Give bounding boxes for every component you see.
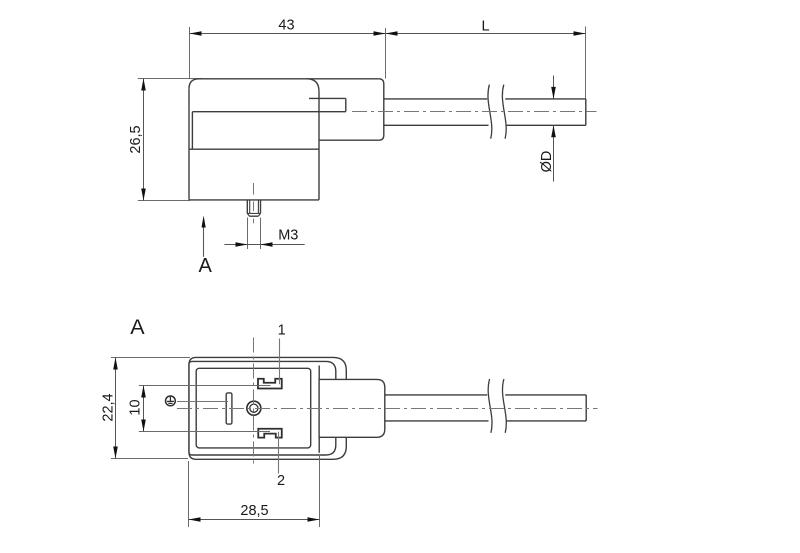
center fixing hole outer (247, 401, 261, 415)
cable break front curve 1 (488, 379, 492, 433)
svg-text:1: 1 (278, 323, 286, 339)
dimension 43/L shared extension line (385, 28, 387, 79)
cable gland right corner top (379, 79, 384, 84)
M3 screw chamfer right (258, 213, 260, 216)
svg-text:10: 10 (128, 399, 144, 415)
M3 extension line right (260, 218, 262, 250)
svg-text:A: A (199, 255, 213, 277)
dimension 10 extension top (139, 385, 271, 387)
band bottom line (189, 148, 319, 150)
arrow L left (386, 31, 398, 36)
dimension 22,4 extension bottom (111, 458, 188, 460)
dimension 10 extension bottom (139, 431, 270, 433)
cap top-left corner (189, 79, 199, 89)
M3 screw thread line right (257, 200, 259, 214)
earth screw leader line (177, 401, 228, 403)
svg-text:28,5: 28,5 (240, 503, 268, 519)
pin 2 leader line (278, 432, 280, 474)
dimension 26,5 extension bottom (138, 200, 190, 202)
svg-text:22,4: 22,4 (101, 393, 117, 421)
dimension 28,5 extension right (319, 456, 321, 527)
diameter D lower arrow (points up) (551, 125, 556, 137)
pin 2 contact (258, 429, 282, 438)
view arrow A head (202, 216, 206, 228)
cable gland (front view) (319, 379, 385, 437)
dimension 43 extension line left (189, 27, 191, 78)
arrow 26,5 bottom (141, 189, 146, 201)
arrow 10 bottom (141, 420, 146, 432)
dimension line 26,5 (143, 79, 145, 201)
dimension 28,5 extension left (188, 461, 190, 527)
center fixing hole inner (250, 404, 258, 412)
face plate right edge (318, 366, 320, 453)
svg-text:43: 43 (278, 17, 294, 33)
dimension line 22,4 (115, 358, 117, 459)
tab top edge (309, 97, 346, 99)
M3 screw stud right edge (260, 200, 262, 214)
cable top edge front (right segment) (505, 394, 586, 396)
M3 screw chamfer left (247, 213, 249, 216)
pin 1 contact (258, 379, 282, 389)
arrow 10 top (141, 386, 146, 398)
M3 screw chamfer shoulder line (247, 212, 260, 214)
arrow 22,4 top (113, 358, 118, 370)
cable centerline (side view) (352, 111, 597, 113)
M3 arrow right (points left) (261, 242, 273, 247)
front view vertical centerline (253, 338, 255, 467)
body right edge (318, 91, 320, 200)
M3 screw tip edge (250, 215, 259, 217)
svg-text:A: A (130, 315, 145, 339)
arrow 26,5 top (141, 79, 146, 91)
earth screw bar 1 (167, 400, 174, 402)
dimension line 28,5 (189, 519, 320, 521)
gland right edge (383, 84, 385, 135)
middle housing outline (front view) (189, 361, 336, 455)
band left inset edge (191, 112, 193, 150)
arrow 43 left (190, 31, 202, 36)
cable top edge (left segment) (384, 98, 487, 100)
M3 arrow left (points right) (236, 242, 248, 247)
M3 screw thread line left (249, 200, 251, 214)
earth screw circle (166, 396, 176, 406)
M3 screw centerline (253, 183, 255, 223)
diameter D upper arrow (points down) (551, 87, 556, 99)
earth screw vertical stroke (169, 396, 171, 401)
body bottom edge (189, 199, 319, 201)
dimension 26,5 extension top (138, 78, 202, 80)
tab right edge (345, 98, 347, 111)
inner face rectangle (196, 368, 311, 448)
arrow 28,5 left (189, 517, 201, 522)
M3 dimension line (224, 244, 304, 246)
cable top edge (right segment) (505, 98, 586, 100)
cable break curve 2 (502, 85, 506, 139)
cable end edge (585, 99, 587, 125)
cable bottom edge front (left segment) (385, 420, 489, 422)
cable bottom edge (right segment) (507, 124, 586, 126)
back housing (front view) (189, 357, 346, 459)
front view horizontal centerline (177, 408, 598, 410)
view arrow A line (203, 227, 205, 257)
gland right corner bottom (379, 135, 384, 140)
coding slot (226, 393, 232, 424)
svg-text:M3: M3 (278, 228, 298, 244)
diameter D upper line (553, 76, 555, 99)
dimension line 10 (143, 386, 145, 432)
band top line / tab bottom (192, 111, 345, 113)
cable break curve 1 (488, 85, 492, 139)
svg-text:L: L (481, 19, 489, 35)
connector body cap top edge (shared with gland) (199, 78, 379, 80)
arrow 28,5 right (308, 517, 320, 522)
cable bottom edge front (right segment) (507, 420, 587, 422)
pin 1 leader line (279, 339, 281, 385)
arrow 22,4 bottom (113, 447, 118, 459)
cap top-right corner (307, 79, 320, 92)
arrow 43 right (374, 31, 386, 36)
M3 extension line left (247, 218, 249, 250)
arrow L right (574, 31, 586, 36)
cable bottom edge (left segment) (384, 124, 489, 126)
cable top edge front (left segment) (385, 394, 487, 396)
gland bottom edge (319, 139, 379, 141)
dimension line 43 (190, 33, 386, 35)
earth screw bar 2 (168, 402, 172, 404)
M3 screw stud left edge (246, 200, 248, 214)
dimension line L (386, 33, 586, 35)
diameter D lower line (553, 125, 555, 181)
cable end edge front (585, 395, 587, 421)
svg-text:2: 2 (277, 473, 285, 489)
svg-text:ØD: ØD (539, 151, 555, 173)
body left edge (188, 89, 190, 200)
dimension L extension line right (585, 27, 587, 100)
svg-text:26,5: 26,5 (128, 125, 144, 153)
cable break front curve 2 (502, 379, 506, 433)
dimension 22,4 extension top (111, 357, 190, 359)
